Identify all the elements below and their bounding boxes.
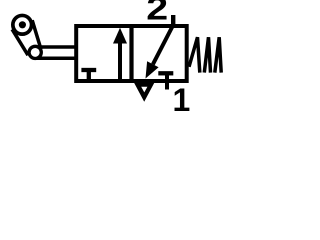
right box: exhaust flow arrow head bbox=[146, 61, 159, 78]
roller wheel axle dot bbox=[19, 21, 26, 28]
divider between position boxes bbox=[129, 26, 133, 81]
port 3 exhaust triangle bbox=[134, 82, 155, 102]
svg-text:2: 2 bbox=[146, 0, 168, 27]
lever arm upper-right edge bbox=[32, 20, 41, 49]
port label 1 bbox=[173, 82, 191, 118]
roller wheel outer circle bbox=[13, 15, 32, 34]
lever pivot circle bbox=[29, 46, 41, 58]
port label 2 bbox=[146, 0, 168, 27]
wire: plunger stem bottom line bbox=[36, 57, 76, 61]
lever arm lower-left edge bbox=[12, 29, 28, 55]
wire: plunger stem top line bbox=[36, 45, 76, 49]
right box: exhaust flow diagonal 2->3 shaft bbox=[153, 25, 173, 64]
right box: blocked port 1 T stem + external stub bbox=[165, 73, 169, 89]
left box: flow arrow head bbox=[113, 28, 127, 44]
left box: flow arrow 1->2 shaft bbox=[118, 42, 122, 80]
svg-text:1: 1 bbox=[173, 82, 191, 118]
left box: blocked port T (crossbar) bbox=[81, 68, 96, 72]
right box: blocked port 1 T (crossbar) bbox=[158, 71, 173, 75]
valve body outline (two position boxes) bbox=[76, 26, 187, 81]
left box: blocked port T (stem) bbox=[87, 70, 91, 80]
spring (return spring zigzag) bbox=[189, 37, 221, 72]
port 2 connection stub bbox=[171, 15, 175, 27]
